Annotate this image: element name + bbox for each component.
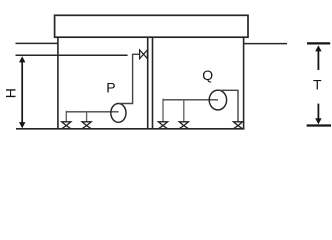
dimension T down arrow <box>315 104 321 125</box>
pump Q suction manifold pipe <box>163 99 218 101</box>
water level line right <box>244 43 287 45</box>
svg-text:P: P <box>106 80 115 96</box>
svg-text:T: T <box>313 77 322 93</box>
pipe drop to valve B <box>183 99 185 122</box>
pump P circle <box>111 104 126 123</box>
dimension T bottom bar <box>307 124 331 126</box>
drain valve L1 <box>62 122 71 129</box>
pump P suction manifold pipe <box>66 111 118 113</box>
transfer valve (bowtie) <box>140 50 148 59</box>
drain valve C <box>233 122 242 129</box>
pump P discharge pipe <box>119 54 140 103</box>
dimension H line <box>19 56 25 128</box>
right tank left wall <box>152 37 154 129</box>
top slab <box>55 15 248 37</box>
dimension T up arrow <box>315 45 321 70</box>
right tank right wall <box>243 37 245 129</box>
ground line <box>16 128 244 130</box>
dimension T top bar <box>307 42 330 44</box>
drain valve A <box>158 122 167 129</box>
pipe drop to valve 2 <box>86 111 88 122</box>
left tank right wall <box>147 37 149 129</box>
svg-text:H: H <box>3 88 19 98</box>
pipe drop to valve 1 <box>65 111 67 122</box>
pump Q discharge pipe <box>219 90 239 122</box>
pipe drop to valve A <box>162 99 164 122</box>
drain valve B <box>179 122 188 129</box>
left tank left wall <box>57 37 59 129</box>
drain valve L2 <box>82 122 91 129</box>
svg-text:Q: Q <box>202 67 213 83</box>
water level line upper left <box>16 42 59 44</box>
pump Q circle <box>209 90 226 110</box>
water level line lower left <box>16 54 128 56</box>
